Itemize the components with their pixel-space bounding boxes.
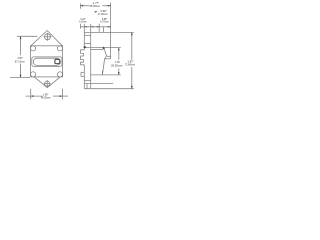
svg-text:14.70mm: 14.70mm [100,20,109,24]
svg-text:67.31mm: 67.31mm [15,59,25,63]
svg-text:71.80mm: 71.80mm [125,62,135,66]
svg-text:17.30mm: 17.30mm [98,12,108,16]
svg-text:29.55mm: 29.55mm [111,63,123,67]
svg-text:6.10mm: 6.10mm [79,20,87,24]
svg-text:48.26mm: 48.26mm [41,96,51,100]
svg-text:45.00mm: 45.00mm [90,4,101,8]
